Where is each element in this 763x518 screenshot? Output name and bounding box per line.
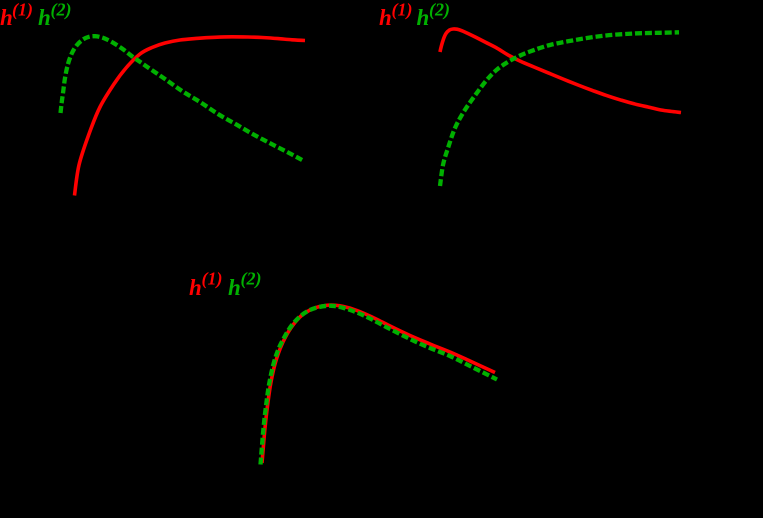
svg-text:h: h: [228, 275, 241, 300]
svg-text:(2): (2): [241, 269, 262, 290]
svg-text:h: h: [0, 5, 13, 30]
svg-text:(1): (1): [202, 269, 223, 290]
svg-text:h: h: [38, 5, 51, 30]
plot 2 curve h1 red solid: [440, 29, 681, 113]
plot 3 curve h1 red solid: [262, 305, 495, 463]
plot 2 curve h2 green dashed: [440, 32, 679, 186]
plot 1 curve h2 green dashed: [61, 36, 305, 161]
svg-text:h: h: [379, 5, 392, 30]
svg-text:h: h: [189, 275, 202, 300]
plot 3 curve h2 green dashed: [261, 306, 498, 465]
svg-text:(1): (1): [392, 0, 413, 21]
svg-text:(1): (1): [12, 0, 33, 21]
plot 1 curve h1 red solid: [75, 37, 306, 196]
svg-text:(2): (2): [51, 0, 72, 21]
svg-text:(2): (2): [429, 0, 450, 21]
svg-text:h: h: [417, 5, 430, 30]
